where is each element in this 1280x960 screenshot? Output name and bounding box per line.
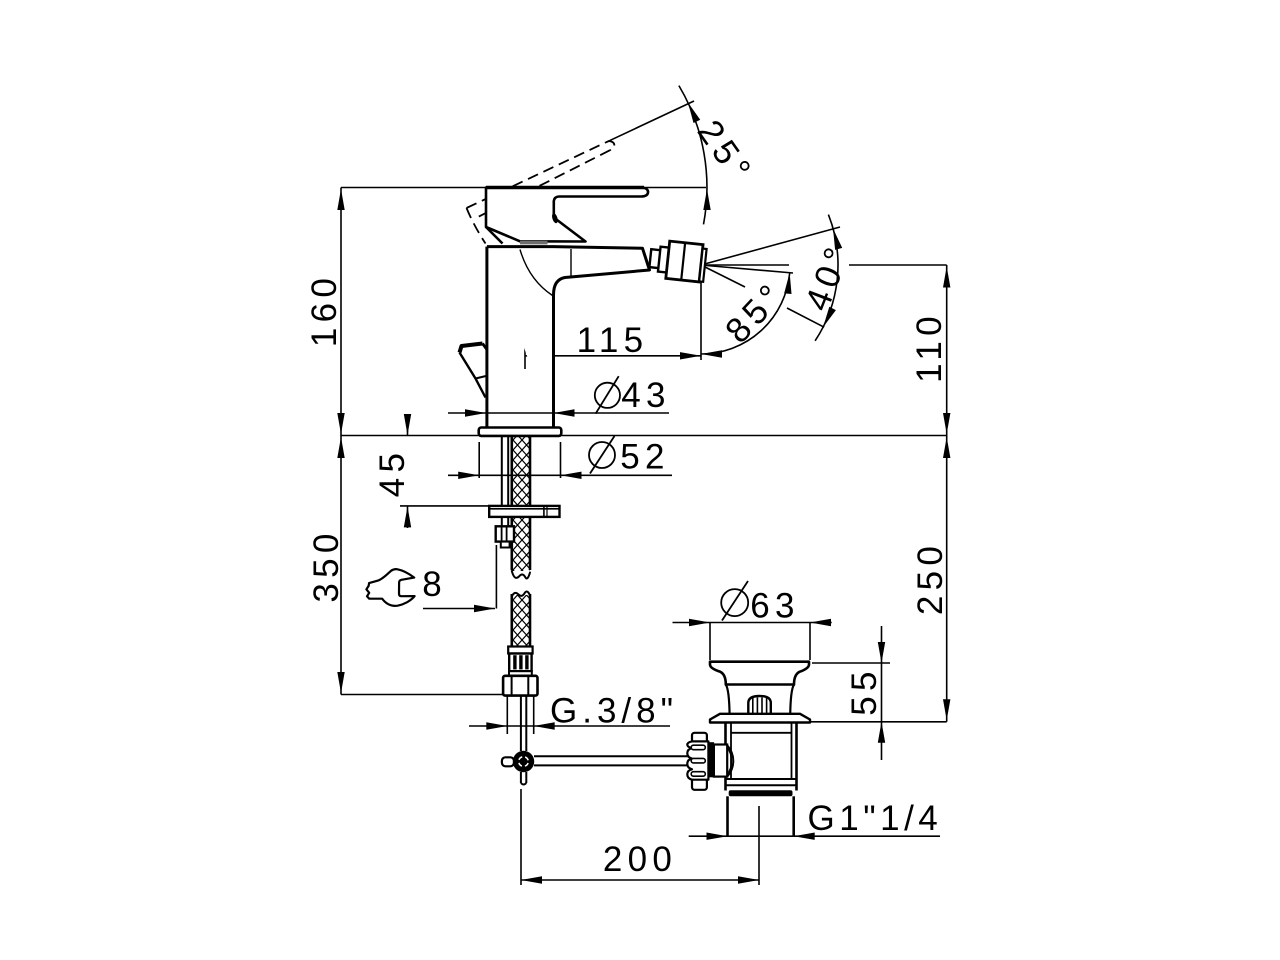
svg-text:115: 115	[577, 321, 649, 360]
svg-text:250: 250	[911, 541, 950, 615]
svg-text:63: 63	[750, 587, 800, 626]
svg-text:52: 52	[620, 438, 670, 477]
svg-text:200: 200	[603, 840, 677, 879]
svg-text:55: 55	[845, 666, 884, 716]
svg-text:45: 45	[373, 448, 412, 498]
svg-text:G1"1/4: G1"1/4	[808, 799, 943, 838]
svg-text:8: 8	[422, 565, 441, 604]
svg-text:G.3/8": G.3/8"	[550, 692, 678, 731]
svg-text:110: 110	[910, 311, 949, 383]
svg-text:43: 43	[621, 376, 671, 415]
svg-text:160: 160	[305, 273, 344, 347]
svg-text:350: 350	[307, 528, 346, 602]
